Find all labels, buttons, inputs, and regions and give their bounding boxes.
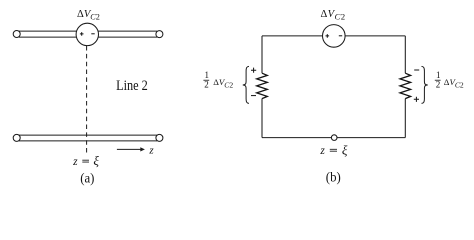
polarity + of source (b) (326, 34, 330, 38)
resistor: left half-impedance of line (b) (257, 73, 268, 98)
svg-text:z: z (72, 156, 78, 168)
svg-text:ΔVC2: ΔVC2 (321, 9, 346, 22)
svg-text:ξ: ξ (342, 142, 348, 157)
polarity - at bottom of left resistor (b) (251, 95, 256, 97)
brace for left resistor voltage (b) (243, 66, 249, 103)
node: right end circle of top conductor (a) (156, 31, 163, 38)
svg-text:2: 2 (204, 80, 209, 90)
svg-text:(a): (a) (80, 171, 94, 186)
node: left end circle of top conductor (a) (13, 31, 20, 38)
node: z = xi terminal on bottom wire (b) (331, 135, 337, 141)
label: 1/2 fraction of right resistor value (b) (435, 70, 441, 89)
wire: left side of loop above resistor (b) (261, 36, 263, 73)
svg-text:ξ: ξ (93, 153, 99, 168)
svg-text:2: 2 (436, 80, 441, 90)
wire: z-axis arrow (a) (117, 147, 145, 151)
wire: right side of loop below resistor (b) (404, 99, 406, 138)
label: 1/2 fraction of left resistor value (b) (203, 70, 209, 89)
polarity + of source (a) (80, 32, 84, 36)
brace for right resistor voltage (b) (422, 66, 428, 103)
voltage source ΔVC2 (b) (323, 25, 346, 48)
wire: top conductor of Line 2 (a) (19, 31, 157, 37)
svg-text:(b): (b) (326, 169, 341, 184)
wire: right side of loop above resistor (b) (404, 36, 406, 73)
polarity + at top of left resistor (b) (251, 68, 256, 73)
wire: left side of loop below resistor (b) (261, 99, 263, 138)
resistor: right half-impedance of line (b) (400, 73, 411, 98)
node label: z = xi (b) (319, 142, 348, 157)
polarity - at top of right resistor (b) (414, 69, 419, 71)
polarity - of source (a) (91, 33, 94, 35)
wire: bottom conductor of Line 2 (a) (19, 135, 157, 141)
polarity - of source (b) (339, 35, 342, 37)
svg-text:Line 2: Line 2 (116, 78, 148, 94)
voltage source ΔVC2 in series with top conductor (a) (76, 23, 98, 45)
wire: top side of loop (b) (262, 35, 405, 37)
node: right end circle of bottom conductor (a) (156, 134, 163, 141)
node label: z = xi (a) (72, 153, 99, 168)
svg-text:z: z (148, 144, 154, 156)
polarity + at bottom of right resistor (b) (414, 97, 419, 102)
wire: dashed line marking generator position z = xi (a) (86, 46, 88, 153)
wire: bottom side of loop (b) (262, 137, 405, 139)
svg-text:z: z (319, 145, 325, 157)
node: left end circle of bottom conductor (a) (13, 134, 20, 141)
